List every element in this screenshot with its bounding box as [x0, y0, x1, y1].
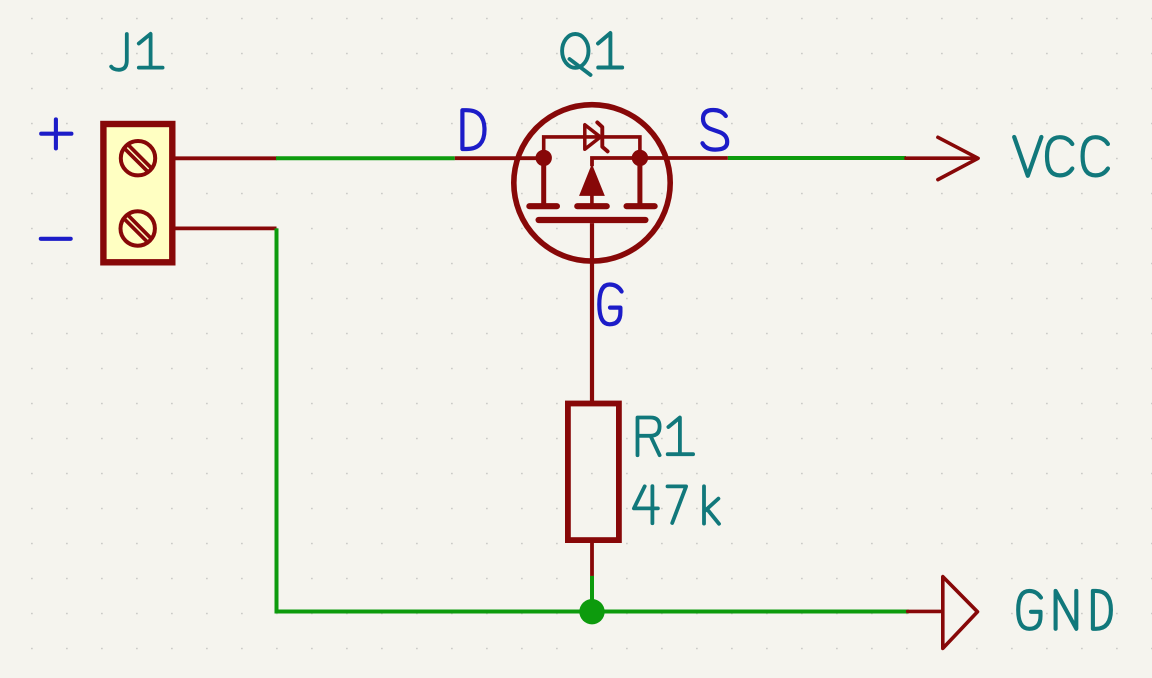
- wire pin2 down and along bottom to GND: [277, 228, 909, 611]
- J1 pin 2 stub: [175, 226, 276, 230]
- Q1 body diode cathode: [597, 122, 607, 151]
- reference Q1: [562, 33, 622, 75]
- wire source to VCC: [728, 156, 906, 160]
- value 47k: [634, 486, 719, 524]
- Q1 channel dash left: [529, 203, 557, 209]
- net label GND: [1018, 591, 1111, 629]
- Q1 source pin with bend to body arrow: [592, 158, 728, 166]
- Q1 source bar: [637, 158, 642, 204]
- J1 screw terminal 1: [121, 141, 155, 175]
- Q1 gate bar: [539, 217, 646, 223]
- pin name + (J1 pin1): [41, 119, 71, 148]
- GND global label triangle: [908, 577, 978, 649]
- connector J1 body: [103, 124, 172, 262]
- Q1 gate pin / wire down to R1: [590, 223, 594, 402]
- pin label S: [703, 110, 728, 150]
- reference J1: [111, 34, 162, 70]
- pin label G: [599, 285, 621, 325]
- Q1 channel dash middle: [577, 203, 606, 209]
- VCC global label arrow: [906, 137, 978, 179]
- Q1 substrate arrow: [580, 165, 604, 195]
- net label VCC: [1014, 137, 1108, 176]
- resistor R1 bottom pin: [590, 540, 594, 576]
- Q1 source junction dot: [632, 150, 648, 166]
- Q1 drain pin: [455, 156, 544, 160]
- wire pin1 to drain: [276, 156, 455, 160]
- reference R1: [638, 418, 694, 456]
- wire resistor to rail: [590, 576, 594, 612]
- resistor R1 body: [568, 404, 619, 541]
- Q1 substrate arrow stem: [590, 195, 594, 203]
- J1 pin 1 stub: [175, 156, 276, 160]
- Q1 drain bar: [541, 158, 546, 204]
- Q1 channel dash right: [627, 203, 655, 209]
- Q1 body diode triangle: [585, 125, 601, 150]
- Q1 body diode top wire: [544, 137, 640, 158]
- J1 screw terminal 2: [121, 211, 155, 245]
- pin label D: [462, 110, 484, 149]
- pin name - (J1 pin2): [41, 237, 71, 241]
- junction dot: [579, 599, 604, 624]
- Q1 drain junction dot: [536, 150, 552, 166]
- Q1 body circle: [514, 105, 670, 261]
